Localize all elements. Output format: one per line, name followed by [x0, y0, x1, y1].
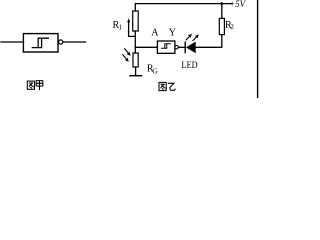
- LED D1 cathode bar: [184, 42, 186, 52]
- svg-text:LED: LED: [181, 61, 197, 71]
- Schmitt trigger U2 (figure yi) box: [157, 41, 175, 53]
- svg-text:G: G: [152, 66, 158, 75]
- wire R2 top lead: [221, 4, 223, 19]
- hysteresis symbol inside U2: [162, 44, 171, 48]
- label Y (output node): [169, 28, 176, 39]
- label +5V: [229, 0, 247, 9]
- photoresistor RG body: [133, 53, 138, 67]
- label LED: [181, 61, 197, 71]
- wire R1 top lead: [134, 4, 136, 11]
- table cell border line at right: [257, 0, 259, 98]
- ground bar: [130, 75, 142, 77]
- inversion bubble of U1: [59, 40, 63, 44]
- svg-text:Y: Y: [169, 28, 176, 39]
- label RG: [147, 64, 159, 76]
- svg-text:+5V: +5V: [229, 0, 247, 9]
- label R1: [113, 20, 123, 31]
- wire LED anode to R2 bottom: [196, 35, 222, 48]
- resistor R1 (adjustable) body: [133, 11, 139, 31]
- wire input of figure-jia Schmitt trigger: [1, 41, 23, 43]
- R1 wiper arrow: [127, 18, 135, 36]
- wire R1 bottom lead through node A down to RG: [134, 31, 136, 53]
- svg-text:A: A: [151, 28, 159, 39]
- LED D1 triangle: [186, 42, 196, 54]
- resistor R2 body: [219, 18, 224, 34]
- +5V supply rail wire: [135, 3, 232, 5]
- junction dot on +5V rail: [220, 2, 223, 5]
- label A (input node): [151, 28, 159, 39]
- wire U2 output to LED cathode: [178, 46, 184, 48]
- Schmitt trigger U1 (figure jia) box: [23, 34, 58, 52]
- inversion bubble of U2: [175, 46, 178, 49]
- wire RG bottom lead: [135, 67, 137, 75]
- label R2: [225, 20, 234, 31]
- label tu-jia (figure A caption): [27, 81, 43, 90]
- svg-text:1: 1: [119, 23, 123, 31]
- wire node A to gate input: [135, 46, 157, 48]
- svg-text:2: 2: [230, 23, 234, 31]
- wire output of U1: [63, 41, 86, 43]
- LED light emission arrows: [186, 34, 199, 41]
- light arrows into RG: [123, 49, 131, 62]
- label tu-yi (figure B caption): [159, 82, 175, 90]
- hysteresis symbol inside U1: [32, 38, 48, 47]
